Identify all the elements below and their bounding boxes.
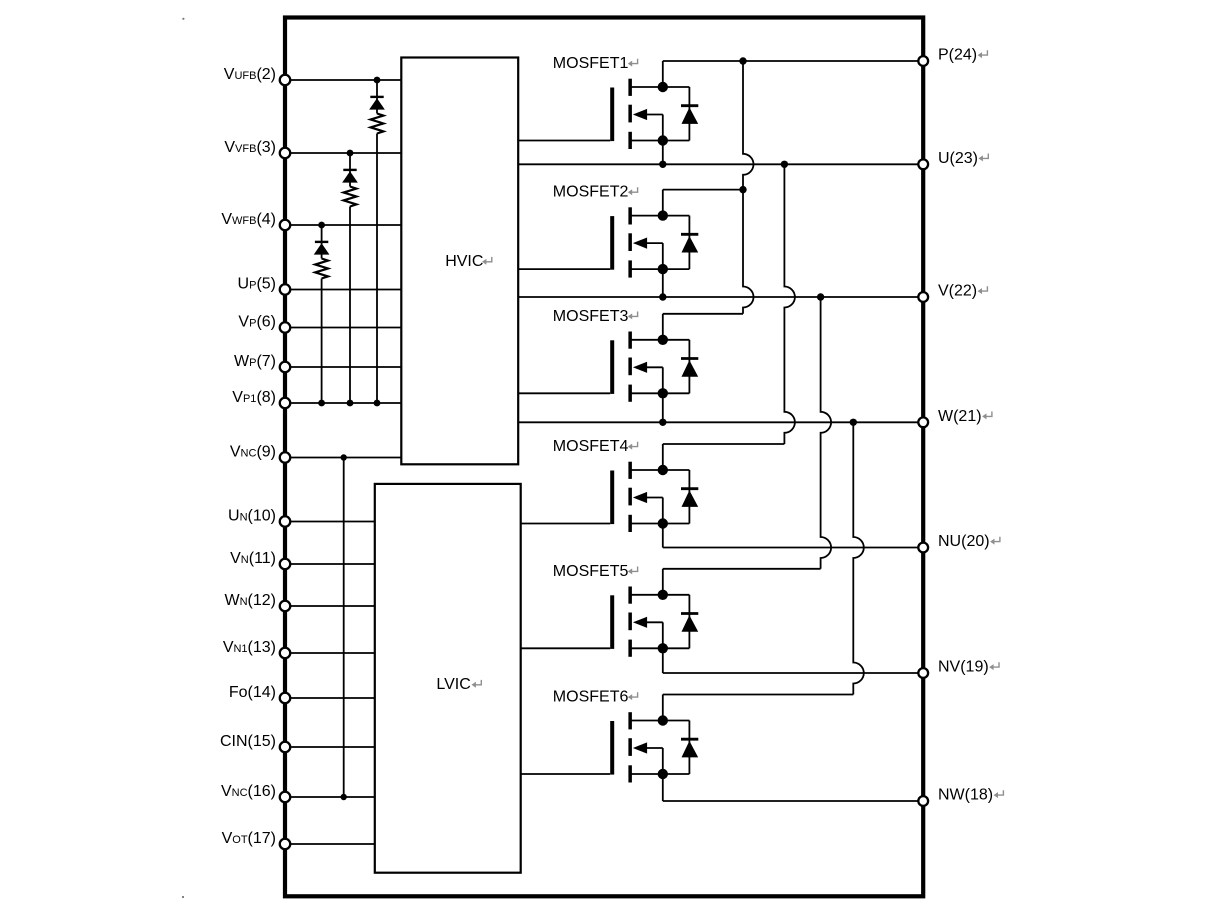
bootstrap diode (VWFB)	[314, 242, 330, 255]
wire: pin VWFB(4) to IC	[285, 224, 401, 226]
bootstrap resistor (VWFB)	[315, 259, 328, 279]
svg-text:NU(20): NU(20)	[938, 533, 990, 550]
wire: P rail (vertical with hop-over arcs)	[743, 61, 754, 314]
pin label NW(18)	[938, 787, 1003, 804]
junction dot source of MOSFET1	[658, 135, 668, 145]
junction dot on VNC(16) line	[341, 794, 347, 800]
wire: source of MOSFET4 down to output line	[662, 498, 664, 548]
pin terminal V(22)	[918, 292, 928, 302]
wire: gate of MOSFET5 from IC	[521, 647, 611, 649]
svg-text:Fo(14): Fo(14)	[229, 684, 276, 701]
body diode of MOSFET6	[681, 721, 698, 775]
transistor MOSFET2 symbol	[610, 207, 689, 277]
pin label VN1(13)	[223, 639, 276, 656]
pin terminal WP(7)	[280, 362, 291, 373]
wire: W(21) phase line	[518, 421, 923, 423]
transistor MOSFET6 label	[553, 689, 638, 706]
pin label V(22)	[938, 283, 987, 300]
junction dot source of MOSFET3	[658, 388, 668, 398]
junction dot MOSFET2 source on output line	[659, 293, 666, 300]
wire: gate of MOSFET1 from IC	[518, 140, 610, 142]
junction dot P rail on P line	[739, 57, 746, 64]
junction dot source of MOSFET2	[658, 264, 668, 274]
wire: source of MOSFET2 down to output line	[662, 243, 664, 297]
junction dot V rail on V line	[817, 293, 824, 300]
pin terminal UP(5)	[280, 284, 291, 295]
svg-text:P(24): P(24)	[938, 47, 977, 64]
transistor MOSFET3 symbol	[610, 332, 689, 402]
pin terminal NV(19)	[918, 668, 928, 678]
wire: pin UN(10) to IC	[285, 521, 375, 523]
wire: V rail to MOSFET5 (vertical with hop-over arcs)	[821, 297, 832, 569]
wire: drain of MOSFET3 up to top rail	[663, 314, 743, 340]
svg-text:NW(18): NW(18)	[938, 787, 993, 804]
pin terminal VNC(9)	[280, 452, 291, 463]
wire: bootstrap chain from VUFB line down to VP1 line	[376, 80, 378, 403]
pin terminal VNC(16)	[280, 792, 291, 803]
pin label NU(20)	[938, 533, 1000, 550]
wire: bootstrap chain from VWFB line down to VP1 line	[321, 225, 323, 403]
pin label VOT(17)	[222, 830, 276, 847]
junction dot drain of MOSFET4	[658, 465, 668, 475]
bootstrap resistor (VVFB)	[344, 187, 357, 207]
bootstrap diode (VVFB)	[342, 170, 358, 183]
wire: bootstrap chain from VVFB line down to VP1 line	[349, 153, 351, 403]
pin label VUFB(2)	[224, 66, 276, 83]
pin label Fo(14)	[229, 684, 276, 701]
wire: pin VUFB(2) to IC	[285, 79, 401, 81]
wire: source of MOSFET3 down to output line	[662, 367, 664, 422]
wire: W rail to MOSFET6 (vertical with hop-over arcs)	[853, 422, 864, 694]
svg-text:U(23): U(23)	[938, 150, 978, 167]
svg-text:MOSFET1: MOSFET1	[553, 55, 629, 72]
junction dot drain of MOSFET1	[658, 82, 668, 92]
svg-text:V(22): V(22)	[938, 283, 977, 300]
wire: source of MOSFET5 down to output line	[662, 622, 664, 673]
pin label VNC(9)	[230, 444, 276, 461]
wire: gate of MOSFET6 from IC	[521, 773, 611, 775]
pin terminal VUFB(2)	[280, 75, 291, 86]
pin terminal P(24)	[918, 56, 928, 66]
junction dot source of MOSFET4	[658, 518, 668, 528]
pin label UP(5)	[238, 276, 276, 293]
body diode of MOSFET3	[681, 340, 698, 394]
wire: gate of MOSFET2 from IC	[518, 268, 610, 270]
wire: drain of MOSFET4 up to top rail	[663, 444, 785, 470]
pin label WP(7)	[234, 353, 276, 370]
junction dot on VNC(9) line	[341, 454, 347, 460]
pin label WN(12)	[224, 592, 276, 609]
junction dot MOSFET3 source on output line	[659, 419, 666, 426]
wire: pin VOT(17) to IC	[285, 843, 375, 845]
transistor MOSFET5 label	[553, 563, 638, 580]
svg-text:VP(6): VP(6)	[238, 314, 276, 331]
junction dot U rail on U line	[781, 161, 788, 168]
junction dot drain of MOSFET5	[658, 590, 668, 600]
svg-text:W(21): W(21)	[938, 408, 982, 425]
pin terminal VN1(13)	[280, 648, 291, 659]
pin terminal WN(12)	[280, 601, 291, 612]
wire: drain of MOSFET5 up to top rail	[663, 569, 821, 595]
wire: U(23) phase line	[518, 163, 923, 165]
transistor MOSFET2 label	[553, 184, 638, 201]
wire: gate of MOSFET3 from IC	[518, 392, 610, 394]
bootstrap resistor (VUFB)	[371, 114, 384, 134]
pin terminal VWFB(4)	[280, 220, 291, 231]
wire: U rail to MOSFET4 (vertical with hop-over arcs)	[784, 164, 795, 444]
wire: gate of MOSFET4 from IC	[521, 523, 611, 525]
wire: pin VNC(16) to IC	[285, 796, 375, 798]
junction dot drain of MOSFET2	[658, 210, 668, 220]
wire: NU(20) line	[663, 547, 923, 549]
wire: pin WN(12) to IC	[285, 605, 375, 607]
pin terminal NW(18)	[918, 796, 928, 806]
junction dot W rail on W line	[850, 419, 857, 426]
junction dot on VWFB line	[318, 222, 325, 229]
wire: pin VP1(8) to IC	[285, 402, 401, 404]
junction dot P rail tap at MOSFET2 drain wire	[739, 186, 746, 193]
svg-text:MOSFET2: MOSFET2	[553, 184, 629, 201]
wire: pin UP(5) to IC	[285, 289, 401, 291]
transistor MOSFET3 label	[553, 308, 638, 325]
svg-text:MOSFET4: MOSFET4	[553, 438, 629, 455]
transistor MOSFET5 symbol	[610, 587, 689, 657]
bootstrap diode (VUFB)	[369, 97, 385, 110]
pin terminal VVFB(3)	[280, 148, 291, 159]
pin label U(23)	[938, 150, 988, 167]
body diode of MOSFET5	[681, 595, 698, 649]
pin label VP1(8)	[232, 389, 276, 406]
junction dot MOSFET1 source on output line	[659, 161, 666, 168]
pin terminal UN(10)	[280, 516, 291, 527]
wire: pin Fo(14) to IC	[285, 697, 375, 699]
junction dot on VP1 line (VUFB chain)	[374, 400, 381, 407]
speck mark bottom	[182, 896, 184, 898]
svg-text:VOT(17): VOT(17)	[222, 830, 276, 847]
wire: source of MOSFET1 down to output line	[662, 115, 664, 165]
transistor MOSFET4 label	[553, 438, 638, 455]
pin label VN(11)	[230, 550, 276, 567]
pin label CIN(15)	[220, 733, 276, 750]
pin terminal U(23)	[918, 159, 928, 169]
module outline border	[285, 18, 923, 897]
junction dot source of MOSFET5	[658, 643, 668, 653]
pin label P(24)	[938, 47, 987, 64]
svg-text:VN(11): VN(11)	[230, 550, 276, 567]
junction dot on VP1 line (VWFB chain)	[318, 400, 325, 407]
junction dot on VVFB line	[347, 150, 354, 157]
body diode of MOSFET2	[681, 216, 698, 270]
wire: pin VN(11) to IC	[285, 563, 375, 565]
pin terminal VOT(17)	[280, 839, 291, 850]
body diode of MOSFET1	[681, 87, 698, 141]
wire: pin VN1(13) to IC	[285, 652, 375, 654]
svg-text:VN1(13): VN1(13)	[223, 639, 276, 656]
junction dot drain of MOSFET6	[658, 715, 668, 725]
pin terminal W(21)	[918, 417, 928, 427]
pin terminal VP1(8)	[280, 398, 291, 409]
pin label VNC(16)	[221, 783, 276, 800]
wire: NV(19) line	[663, 672, 923, 674]
pin terminal NU(20)	[918, 543, 928, 553]
wire: pin VVFB(3) to IC	[285, 152, 401, 154]
transistor MOSFET4 symbol	[610, 462, 689, 532]
wire: drain of MOSFET2 up to top rail	[663, 190, 743, 216]
svg-text:WN(12): WN(12)	[224, 592, 276, 609]
svg-text:MOSFET6: MOSFET6	[553, 689, 629, 706]
svg-text:UP(5): UP(5)	[238, 276, 276, 293]
svg-text:LVIC: LVIC	[436, 676, 470, 693]
wire: drain of MOSFET1 up to top rail	[663, 61, 923, 87]
svg-text:VNC(16): VNC(16)	[221, 783, 276, 800]
junction dot on VUFB line	[374, 77, 381, 84]
wire: VNC(9) to VNC(16) vertical tie	[343, 458, 345, 798]
IC block U2 LVIC	[375, 484, 521, 873]
wire: pin WP(7) to IC	[285, 366, 401, 368]
junction dot on VP1 line (VVFB chain)	[347, 400, 354, 407]
transistor MOSFET1 label	[553, 55, 638, 72]
pin terminal Fo(14)	[280, 693, 291, 704]
junction dot source of MOSFET6	[658, 769, 668, 779]
svg-text:CIN(15): CIN(15)	[220, 733, 276, 750]
wire: pin CIN(15) to IC	[285, 746, 375, 748]
pin label VP(6)	[238, 314, 276, 331]
wire: V(22) phase line	[518, 296, 923, 298]
transistor MOSFET1 symbol	[610, 79, 689, 149]
wire: pin VNC(9) to IC	[285, 457, 401, 459]
svg-text:NV(19): NV(19)	[938, 659, 989, 676]
wire: NW(18) line	[663, 800, 923, 802]
body diode of MOSFET4	[681, 470, 698, 524]
transistor MOSFET6 symbol	[610, 712, 689, 782]
pin label UN(10)	[228, 508, 276, 525]
pin terminal VP(6)	[280, 322, 291, 333]
svg-text:HVIC: HVIC	[445, 253, 483, 270]
speck mark top	[182, 18, 184, 20]
wire: pin VP(6) to IC	[285, 327, 401, 329]
svg-text:MOSFET5: MOSFET5	[553, 563, 629, 580]
svg-text:MOSFET3: MOSFET3	[553, 308, 629, 325]
pin label NV(19)	[938, 659, 999, 676]
pin label VVFB(3)	[224, 139, 276, 156]
pin terminal VN(11)	[280, 559, 291, 570]
junction dot drain of MOSFET3	[658, 335, 668, 345]
pin terminal CIN(15)	[280, 742, 291, 753]
wire: source of MOSFET6 down to output line	[662, 748, 664, 801]
pin label W(21)	[938, 408, 992, 425]
op-amp/IC block U1 HVIC	[401, 58, 518, 465]
svg-text:UN(10): UN(10)	[228, 508, 276, 525]
pin label VWFB(4)	[221, 211, 276, 228]
wire: drain of MOSFET6 up to top rail	[663, 695, 854, 721]
